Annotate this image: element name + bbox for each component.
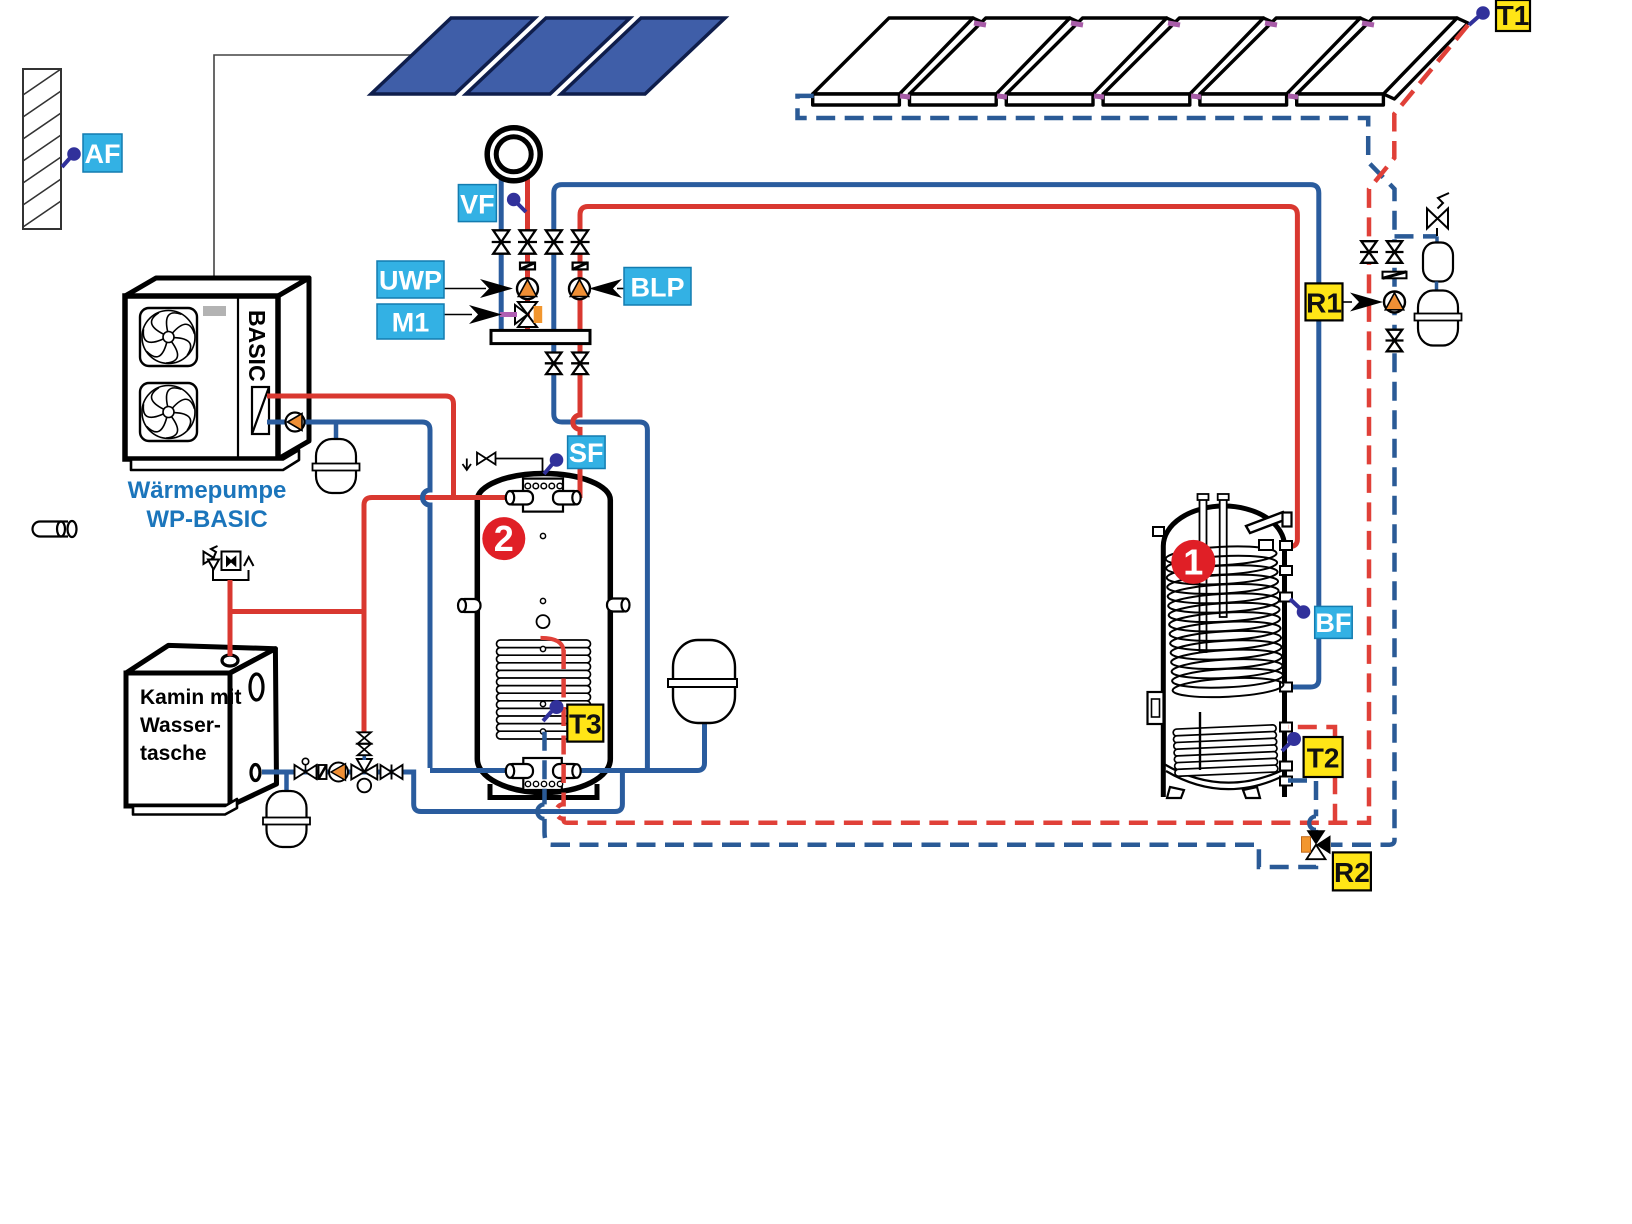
wire heat pump return (blue) with crossover hop	[310, 422, 430, 768]
magenta actuator link	[500, 312, 517, 317]
sensor T2	[1287, 732, 1301, 746]
wall stubs	[1153, 527, 1292, 786]
3-way mixing valve kamin	[351, 759, 377, 792]
tank2 bottom flange	[523, 758, 562, 790]
svg-text:BF: BF	[1315, 608, 1351, 638]
wire kamin safety riser (red)	[228, 580, 233, 656]
badge 2	[482, 517, 525, 560]
fan 1	[140, 308, 197, 366]
shut-off valve V3	[544, 230, 563, 253]
svg-text:Kamin mit: Kamin mit	[140, 686, 242, 709]
wire heating circuit supply (blue riser)	[499, 176, 504, 332]
svg-text:AF: AF	[85, 139, 121, 169]
valve below manifold (red)	[571, 353, 589, 375]
outside wall (hatched) for AF sensor	[23, 69, 61, 229]
pump kamin	[329, 763, 348, 782]
hydraulic separator manifold	[491, 330, 590, 343]
wire BLP line to DHW tank (red long)	[580, 207, 1297, 547]
DHW tank 1 body	[1163, 506, 1284, 797]
svg-text:BASIC: BASIC	[244, 310, 270, 382]
wire solar return (blue dashed) from collectors to R1/R2	[798, 96, 1395, 845]
svg-text:M1: M1	[392, 308, 430, 338]
tank2 side port right	[607, 599, 630, 612]
heating element flange	[1148, 692, 1164, 724]
wire manifold to buffer right (blue)	[554, 343, 648, 770]
M1 pointer arrow	[444, 314, 472, 316]
dished bottom	[1164, 764, 1283, 783]
collector interconnectors (magenta)	[900, 23, 1374, 97]
tank2 solar coil	[497, 640, 591, 739]
wire heat pump flow (red)	[267, 396, 454, 495]
shut-off valve V2	[518, 230, 537, 253]
svg-text:R2: R2	[1334, 857, 1370, 888]
wire blue dashed tank2 coil return	[545, 732, 552, 845]
tank2 relief valve on top	[463, 453, 543, 473]
valve below pump	[1386, 330, 1404, 352]
diverting valve R2	[1302, 830, 1331, 859]
svg-text:Wärmepumpe: Wärmepumpe	[128, 477, 287, 504]
label R2	[1333, 852, 1371, 890]
fan 2	[140, 383, 197, 441]
wire blue header crossing tank bottom	[477, 768, 611, 773]
small tank fittings	[540, 533, 545, 538]
DHW coil (upper)	[1165, 544, 1284, 700]
svg-text:2: 2	[494, 518, 514, 559]
wire solar flow (red dashed) from T1 down	[567, 25, 1468, 823]
pump BLP	[569, 278, 590, 299]
solar air separator vessel	[1423, 243, 1453, 282]
svg-text:UWP: UWP	[379, 266, 442, 296]
tank2 bottom-right port	[553, 764, 581, 778]
mixing valve M1	[515, 302, 542, 327]
wire heating circuit return (red riser)	[525, 168, 530, 332]
wire kamin return (blue)	[262, 768, 622, 812]
kamin safety valve group	[204, 546, 254, 580]
HP flow (red) stub	[267, 394, 283, 399]
svg-text:1: 1	[1183, 542, 1203, 583]
wire buffer bottom header (blue)	[430, 723, 705, 771]
coil top/bottom connectors	[1259, 540, 1273, 550]
heat exchanger symbol	[252, 387, 269, 434]
solar expansion vessel	[1418, 291, 1458, 346]
kamin expansion vessel	[284, 774, 289, 796]
svg-text:BLP: BLP	[631, 273, 685, 303]
wire branch to safety/vessel (blue dashed)	[1395, 234, 1438, 239]
tank2 bottom-left port	[506, 764, 533, 778]
tank2 top flange	[523, 479, 563, 512]
svg-text:R1: R1	[1306, 288, 1342, 319]
shut-off valve V4	[571, 230, 590, 253]
solar collector panel S1 (blue)	[371, 18, 725, 94]
pump UWP	[517, 278, 538, 299]
wire red stub into top-left port	[474, 495, 509, 500]
heat pump WP-BASIC outdoor unit	[125, 278, 309, 296]
wire red dashed branch to T2 coil	[1288, 727, 1335, 823]
label R1	[1306, 283, 1343, 320]
HP return pump	[267, 420, 310, 425]
wire blue dashed tank1 bottom to R2	[1288, 781, 1316, 834]
wire buffer to DHW tank top (blue long)	[554, 185, 1319, 687]
shut-off valve V1	[492, 230, 511, 253]
feet	[1167, 787, 1184, 798]
svg-text:VF: VF	[460, 190, 495, 220]
valve on blue dashed (solar)	[1386, 241, 1404, 263]
label M1	[377, 304, 444, 339]
valve below manifold (blue)	[545, 353, 563, 375]
kamin circuit valves/pump group	[295, 732, 403, 792]
solar collector panel S2 (blue)	[466, 18, 630, 94]
expansion vessel at buffer	[673, 640, 735, 723]
wire manifold red drop to buffer with hop	[573, 343, 580, 497]
sensor AF	[67, 147, 81, 161]
shutoff valve right of kamin 3-way	[381, 765, 403, 780]
two valves above kamin 3-way	[362, 754, 366, 760]
svg-text:WP-BASIC: WP-BASIC	[146, 506, 267, 533]
svg-text:Wasser-: Wasser-	[140, 714, 221, 737]
wire from heat pump to blue collectors	[214, 55, 411, 287]
small pipe union icon	[33, 521, 77, 537]
tank2 top-left port	[506, 491, 533, 505]
buffer tank 2 base pedestal	[490, 784, 597, 798]
solar collector panel S3 (blue)	[561, 18, 725, 94]
lower coil	[1173, 725, 1278, 777]
pump R1 (solar)	[1384, 292, 1405, 313]
heating circuit symbol (double circle)	[487, 128, 540, 181]
sensor BF	[1297, 605, 1311, 619]
sensor T3	[550, 700, 564, 714]
wood stove Kamin mit Wassertasche	[126, 645, 275, 673]
flat solar collectors row (6 white panels)	[813, 18, 1468, 105]
svg-text:tasche: tasche	[140, 742, 207, 765]
check valve solar	[1383, 272, 1407, 279]
sensor SF	[550, 453, 564, 467]
wire red stub into top-right port	[578, 468, 583, 498]
badge 1	[1171, 540, 1215, 584]
label BLP	[624, 268, 691, 306]
check valve on UWP line	[520, 263, 535, 270]
sensor T1	[1476, 6, 1490, 20]
svg-text:T1: T1	[1497, 0, 1530, 31]
wire kamin flow to storage riser (red)	[230, 498, 506, 734]
wire red dashed tank2 drop with hop	[541, 638, 564, 652]
BLP pointer arrow	[617, 288, 624, 290]
tank2 side port left	[458, 599, 481, 612]
UWP pointer arrow	[444, 288, 486, 290]
svg-text:T2: T2	[1307, 743, 1340, 774]
HP expansion vessel	[334, 422, 339, 444]
svg-text:SF: SF	[569, 438, 604, 468]
check valve on BLP line	[573, 263, 588, 270]
tilted handhole top right	[1246, 512, 1287, 533]
drain valve	[295, 758, 317, 779]
solar safety valve	[1427, 193, 1449, 236]
valve on red dashed (solar)	[1360, 241, 1378, 263]
R1 pointer arrow	[1342, 301, 1352, 303]
tank2 top-right port	[553, 491, 581, 505]
sensor VF	[507, 193, 521, 207]
label UWP	[377, 261, 444, 298]
svg-text:T3: T3	[569, 709, 602, 740]
top probe tubes	[1198, 494, 1229, 652]
buffer tank 2 body	[477, 474, 610, 793]
check valve kamin	[319, 765, 327, 779]
